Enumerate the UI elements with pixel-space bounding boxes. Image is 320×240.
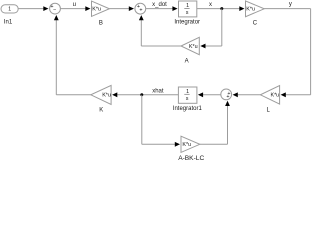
- junction at x: [220, 7, 223, 10]
- wire Integrator1 to K: [112, 92, 178, 97]
- junction at xhat: [140, 93, 143, 96]
- sum junction Sum (+ -): [50, 3, 61, 14]
- svg-text:x_dot: x_dot: [152, 2, 167, 8]
- wire Integrator to C: [197, 6, 245, 11]
- wire C to right edge: [264, 8, 310, 10]
- gain C: [246, 1, 265, 27]
- wire y feedback down right edge: [310, 9, 312, 95]
- svg-text:B: B: [99, 20, 103, 26]
- svg-text:K: K: [99, 107, 103, 113]
- gain K: [91, 85, 111, 113]
- integrator block Integrator (1/s): [174, 1, 200, 26]
- input port In1: [1, 5, 18, 26]
- svg-text:K*u: K*u: [182, 142, 191, 148]
- wire Sum to B: [60, 6, 90, 11]
- svg-text:C: C: [253, 20, 258, 26]
- svg-text:+: +: [226, 94, 229, 100]
- svg-text:xhat: xhat: [152, 88, 164, 94]
- svg-text:Integrator: Integrator: [174, 20, 200, 26]
- wire Sum1 to Integrator: [146, 6, 178, 11]
- wire L to Sum2: [233, 92, 261, 97]
- svg-text:K*u: K*u: [189, 44, 198, 50]
- integrator block Integrator1 (1/s): [173, 87, 203, 112]
- svg-text:K*u: K*u: [270, 93, 279, 99]
- wire B to Sum1: [109, 6, 134, 11]
- svg-text:+: +: [139, 7, 142, 13]
- wire A to Sum1: [139, 15, 181, 46]
- svg-text:1: 1: [186, 3, 189, 9]
- svg-text:Integrator1: Integrator1: [173, 106, 203, 112]
- svg-text:K*u: K*u: [92, 7, 101, 13]
- gain A: [181, 37, 199, 64]
- gain B: [92, 1, 110, 26]
- svg-text:In1: In1: [4, 19, 13, 25]
- wire right edge to L: [281, 92, 311, 97]
- svg-text:s: s: [186, 10, 189, 16]
- svg-text:−: −: [53, 7, 56, 13]
- svg-text:1: 1: [8, 6, 11, 12]
- wire A-BK-LC to Sum2: [200, 101, 230, 145]
- sum junction Sum2 (+ +): [221, 89, 232, 100]
- sum junction Sum1 (+ +): [135, 3, 146, 14]
- svg-text:x: x: [209, 2, 212, 8]
- gain A-BK-LC: [178, 136, 204, 162]
- svg-text:u: u: [73, 2, 76, 8]
- svg-text:A-BK-LC: A-BK-LC: [178, 155, 204, 161]
- wire In1 to Sum: [18, 6, 49, 11]
- gain L: [260, 86, 279, 114]
- wire x to A: [200, 9, 222, 49]
- svg-text:y: y: [289, 2, 292, 8]
- wire xhat to A-BK-LC: [142, 95, 180, 147]
- svg-text:K*u: K*u: [102, 93, 111, 99]
- svg-text:A: A: [185, 58, 189, 64]
- wire K to Sum feedback: [54, 15, 91, 95]
- wire Sum2 to Integrator1: [198, 92, 221, 97]
- svg-text:s: s: [186, 96, 189, 102]
- svg-text:K*u: K*u: [246, 7, 255, 13]
